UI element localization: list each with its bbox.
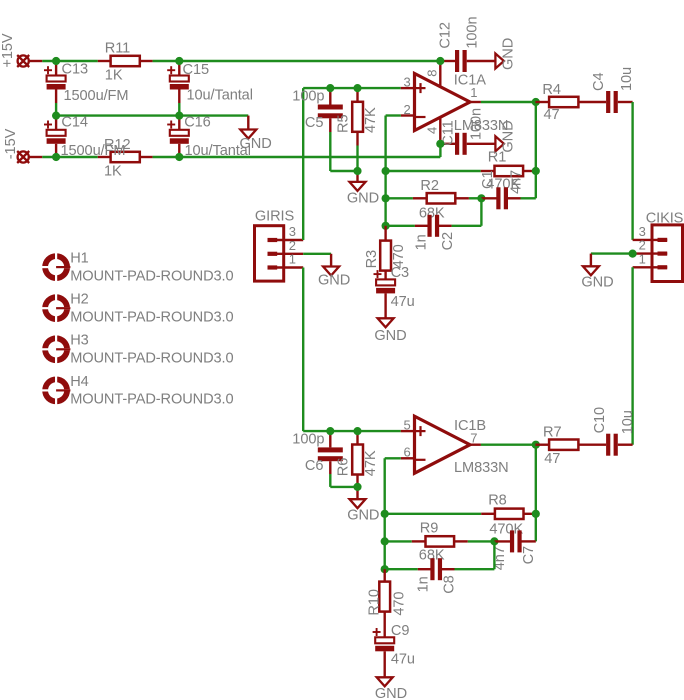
svg-text:-15V: -15V [3,128,19,159]
resistor R10 [367,569,408,637]
wire pin6 to feedback [385,458,401,569]
capacitor C12 [438,17,496,72]
svg-text:3: 3 [289,224,296,239]
resistor R11 [98,40,153,83]
resistor R3 [364,226,407,280]
svg-text:R4: R4 [542,82,560,98]
svg-text:GND: GND [501,120,517,152]
ground C11 [495,120,516,152]
junction R6 input [353,427,361,435]
junction mid C13 C14 [52,112,60,120]
svg-text:GND: GND [374,328,406,344]
svg-text:R11: R11 [105,40,130,56]
svg-text:10u/Tantal: 10u/Tantal [187,88,253,104]
svg-text:GND: GND [501,38,517,70]
svg-text:47u: 47u [391,652,415,668]
svg-text:100p: 100p [292,89,324,105]
svg-text:LM833N: LM833N [454,460,509,476]
resistor R2 [413,178,469,222]
wire -15V rail right [153,144,441,157]
svg-text:47K: 47K [363,107,379,133]
junction R2 C1 [477,194,485,202]
svg-text:100n: 100n [469,108,485,140]
svg-text:+15V: +15V [0,33,16,67]
pin 8 IC1A [424,61,440,88]
capacitor C16 [167,114,251,159]
resistor R5 [335,88,379,171]
svg-text:MOUNT-PAD-ROUND3.0: MOUNT-PAD-ROUND3.0 [70,310,233,326]
wire feedback row3 B [385,568,418,570]
junction IC1A output [532,98,540,106]
svg-text:4n7: 4n7 [508,170,524,194]
wire feedback row2 A [386,197,413,199]
capacitor C11 [440,108,495,155]
junction -15V C16 [175,153,183,161]
label +15V [0,33,16,67]
label -15V [3,128,19,159]
svg-text:C6: C6 [305,458,323,474]
capacitor C6 [292,431,357,487]
junction pin8 C12 [436,57,444,65]
svg-text:MOUNT-PAD-ROUND3.0: MOUNT-PAD-ROUND3.0 [70,268,233,284]
svg-text:C12: C12 [438,22,454,48]
pin 3 GIRIS label [289,224,296,239]
junction CIKIS pin2 [629,250,637,258]
op-amp IC1B [415,416,509,476]
svg-text:C7: C7 [521,546,537,564]
svg-text:1500u/FM: 1500u/FM [64,88,129,104]
svg-text:6: 6 [404,445,411,460]
svg-text:GND: GND [375,686,407,700]
pin 5 IC1B [401,417,415,432]
mount pad H3 [42,333,234,367]
svg-text:R9: R9 [420,520,438,536]
svg-text:H4: H4 [70,374,88,390]
svg-text:C4: C4 [591,73,607,91]
wire GIRIS pin2 to ground [303,253,331,255]
pin 1 IC1A [470,85,481,102]
capacitor C4 [591,67,635,113]
ground C12 [495,38,516,70]
wire GIRIS pin1 riser [302,268,304,432]
wire C4 to CIKIS pin3 [631,102,633,240]
junction R8 right [532,510,540,518]
resistor R8 [481,492,536,537]
capacitor C13 [44,61,128,116]
svg-text:C8: C8 [442,575,458,593]
wire R2 to C1 [469,197,482,199]
capacitor C9 [373,623,415,677]
wire pin2 to feedback [386,116,401,226]
wire IC1A output [481,101,536,103]
svg-text:47: 47 [544,107,560,123]
svg-text:5: 5 [404,417,411,432]
wire feedback row1 A [386,170,481,172]
junction -15V C14 [52,153,60,161]
svg-text:GND: GND [581,275,613,291]
resistor R1 [481,149,537,192]
power symbol +15V supply [17,55,42,67]
capacitor C14 [44,114,125,159]
capacitor C1 [480,170,536,209]
svg-text:H2: H2 [70,292,88,308]
svg-text:47: 47 [544,451,560,467]
capacitor C15 [167,61,253,116]
pin 4 IC1A [424,119,440,144]
svg-text:C16: C16 [184,114,210,130]
op-amp IC1A [415,72,509,134]
junction pin2 row3 [382,222,390,230]
wire +15V rail right [153,60,441,62]
junction pin6 row2 [381,537,389,545]
svg-text:GND: GND [347,507,379,523]
mount pad H2 [42,292,234,326]
junction R5 input [353,84,361,92]
svg-text:R6: R6 [335,458,351,476]
svg-text:470: 470 [392,592,408,616]
svg-text:GND: GND [240,136,272,152]
junction R1 right [532,167,540,175]
svg-text:1: 1 [470,85,477,100]
capacitor C2 [414,198,482,250]
junction +15V C15 [175,57,183,65]
capacitor C5 [292,88,357,171]
svg-text:47u: 47u [391,294,415,310]
power symbol -15V supply [17,151,42,163]
pin 2 GIRIS label [289,238,296,253]
wire -15V rail left [42,156,98,158]
svg-text:C2: C2 [440,232,456,250]
svg-text:C14: C14 [61,114,87,130]
pin 6 IC1B [401,445,415,460]
svg-text:R7: R7 [543,425,561,441]
svg-text:C5: C5 [305,115,323,131]
svg-text:2: 2 [404,102,411,117]
svg-text:MOUNT-PAD-ROUND3.0: MOUNT-PAD-ROUND3.0 [70,351,233,367]
resistor R4 [535,82,606,123]
svg-text:R10: R10 [367,589,383,615]
wire input row bottom [303,430,401,432]
junction C5 input [326,84,334,92]
svg-text:7: 7 [470,431,477,446]
ground C9 [375,677,407,700]
junction R9 C7 [490,537,498,545]
svg-text:C1: C1 [480,171,496,189]
svg-text:R3: R3 [364,250,380,268]
svg-text:1500u/FM: 1500u/FM [61,143,126,159]
junction +15V C13 [52,57,60,65]
svg-text:68K: 68K [419,206,445,222]
svg-text:R2: R2 [420,178,438,194]
svg-text:8: 8 [424,70,439,77]
junction pin6 row3 [381,565,389,573]
junction C5 R5 ground [353,167,361,175]
junction IC1B output [532,441,540,449]
junction pin2 row2 [382,194,390,202]
svg-text:MOUNT-PAD-ROUND3.0: MOUNT-PAD-ROUND3.0 [70,392,233,408]
svg-text:1K: 1K [104,163,122,179]
wire feedback row2 B [385,540,412,542]
capacitor C3 [374,265,415,319]
wire IC1B output [481,444,536,446]
svg-text:1n: 1n [415,576,431,592]
pin 3 CIKIS label [639,224,646,239]
svg-text:C10: C10 [592,407,608,433]
svg-text:3: 3 [404,75,411,90]
svg-text:100p: 100p [292,432,324,448]
pin 2 IC1A [401,102,415,117]
svg-text:GND: GND [347,191,379,207]
svg-text:R5: R5 [335,115,351,133]
wire +15V rail left [42,60,98,62]
svg-text:10u: 10u [620,410,636,434]
capacitor C8 [415,541,494,593]
ground C5 R5 [347,171,379,207]
svg-text:10u: 10u [619,67,635,91]
junction pin4 C11 [436,140,444,148]
resistor R12 [98,137,153,179]
wire feedback row1 B [385,513,482,515]
ground C6 R6 [347,487,379,524]
svg-text:R1: R1 [488,149,506,165]
junction pin6 row1 [381,510,389,518]
pin 1 CIKIS label [639,251,646,266]
junction C6 input [326,427,334,435]
svg-text:100n: 100n [465,17,481,49]
pin 2 CIKIS label [639,238,646,253]
ground GIRIS [318,254,350,289]
wire output riser A [535,102,537,198]
wire feedback row3 A [386,225,415,227]
ground power rail [240,116,272,152]
wire CIKIS pin1 riser [631,267,633,444]
resistor R7 [535,425,606,467]
capacitor C7 [492,530,537,570]
pin 7 IC1B [470,431,481,446]
connector GIRIS [255,209,304,281]
wire R9 to C7 [468,540,495,542]
svg-text:4: 4 [424,127,439,134]
svg-text:R8: R8 [488,492,506,508]
connector CIKIS [633,211,684,282]
svg-text:H1: H1 [70,251,88,267]
mount pad H1 [42,251,234,285]
svg-text:1K: 1K [105,68,123,84]
wire ground mid rail [56,114,248,116]
ground C3 [374,318,406,344]
svg-text:GND: GND [318,272,350,288]
junction C6 R6 ground [353,483,361,491]
svg-text:1n: 1n [414,234,430,250]
svg-text:GIRIS: GIRIS [255,209,295,225]
resistor R6 [335,431,379,487]
junction mid C15 C16 [175,112,183,120]
wire GIRIS pin3 riser [302,88,304,240]
svg-text:1: 1 [639,251,646,266]
ground CIKIS [581,254,613,291]
svg-text:H3: H3 [70,333,88,349]
wire output riser B [535,445,537,542]
svg-text:C3: C3 [391,265,409,281]
resistor R9 [412,520,468,563]
junction pin2 row1 [382,167,390,175]
mount pad H4 [42,374,234,408]
svg-text:C15: C15 [183,62,209,78]
svg-text:47K: 47K [363,450,379,476]
svg-text:C13: C13 [62,61,88,77]
capacitor C10 [592,407,636,456]
svg-text:C9: C9 [391,623,409,639]
wire input row top [303,87,401,89]
pin 1 GIRIS label [289,252,296,267]
pin 3 IC1A [401,75,415,90]
svg-text:1: 1 [289,252,296,267]
wire CIKIS pin2 to ground [591,252,633,254]
svg-text:CIKIS: CIKIS [646,211,684,227]
